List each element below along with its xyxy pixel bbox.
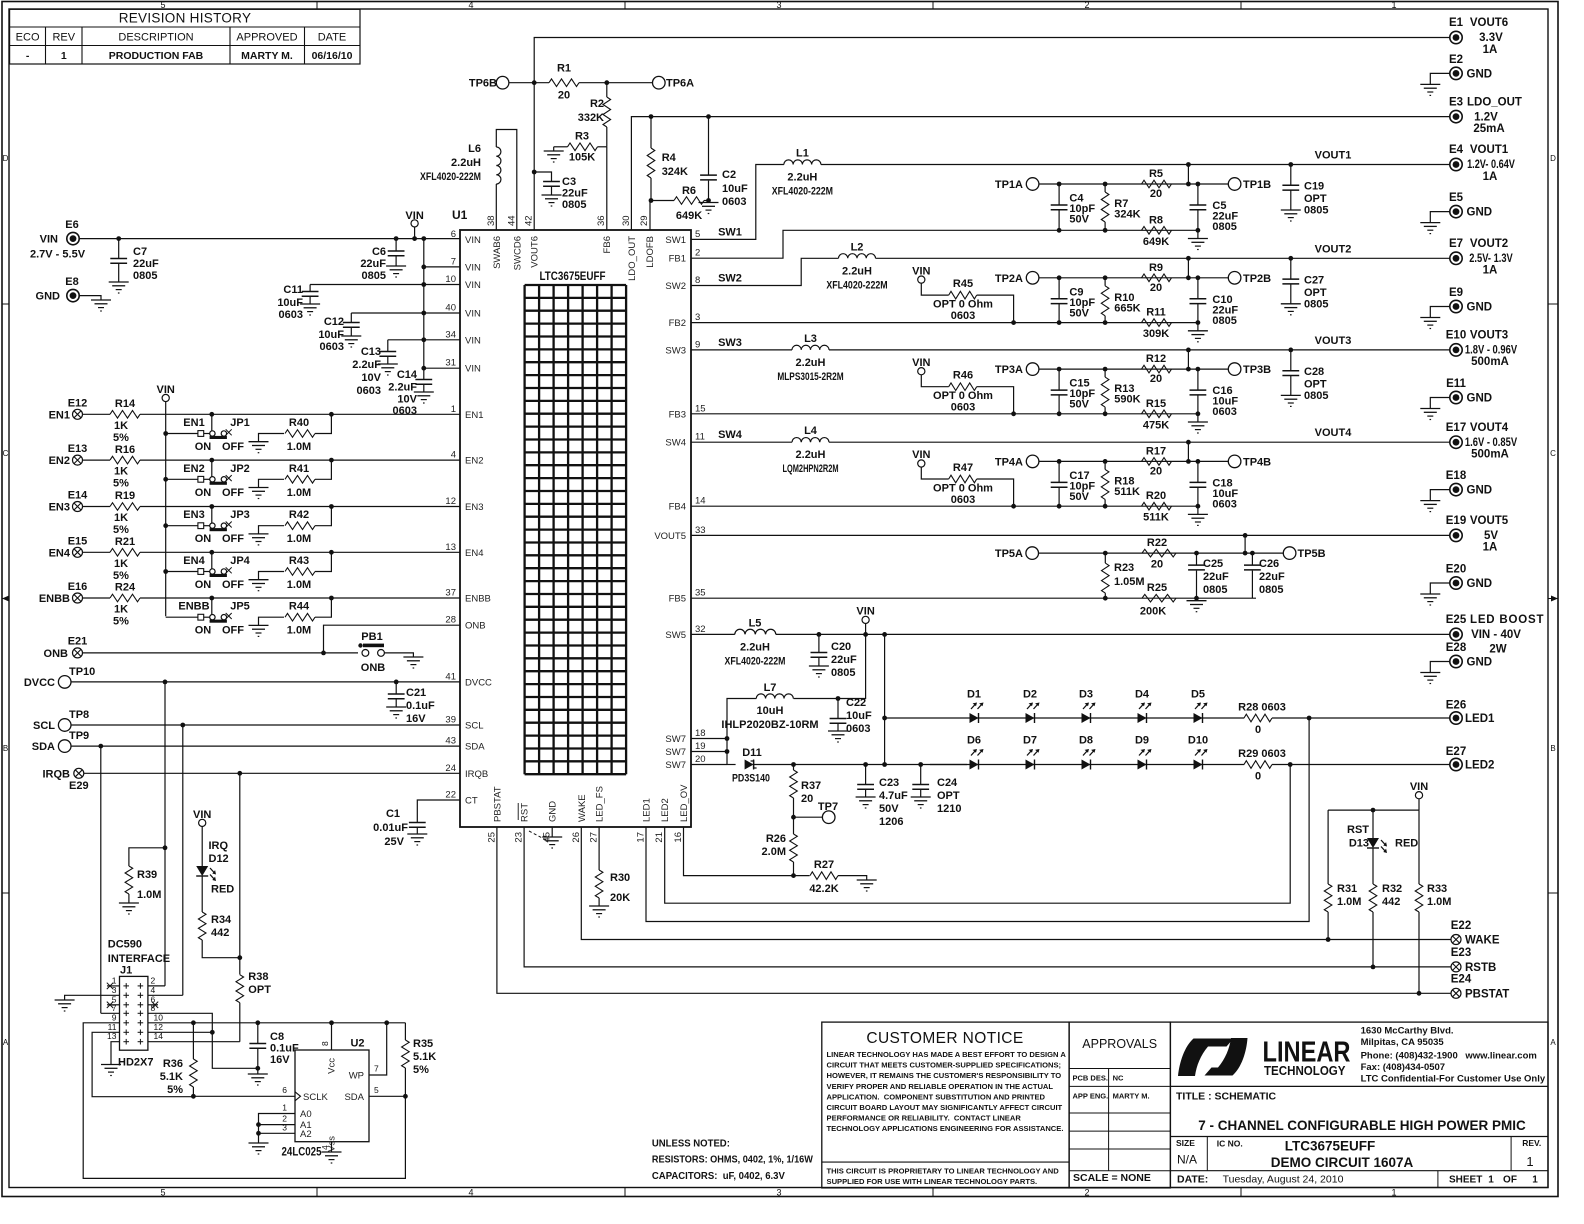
svg-text:1.0M: 1.0M <box>1427 896 1451 908</box>
svg-text:C22: C22 <box>846 697 866 709</box>
terminal E7 <box>1450 252 1462 264</box>
resistor R22 20 <box>1142 549 1176 557</box>
svg-text:9: 9 <box>695 339 700 350</box>
svg-text:SDA: SDA <box>465 742 485 753</box>
wire VOUT4 rail <box>829 441 1450 443</box>
svg-text:0603: 0603 <box>1212 406 1236 418</box>
svg-text:LED_FS: LED_FS <box>595 786 606 822</box>
svg-text:324K: 324K <box>1114 209 1140 221</box>
svg-text:5%: 5% <box>113 432 129 444</box>
node VIN label at U1 <box>411 220 418 227</box>
LED D5 <box>1194 713 1203 723</box>
svg-text:L7: L7 <box>764 682 777 694</box>
svg-text:C24: C24 <box>937 777 958 789</box>
svg-text:22uF: 22uF <box>1203 571 1229 583</box>
svg-text:8: 8 <box>320 1041 330 1046</box>
svg-text:43: 43 <box>445 736 456 747</box>
svg-text:1210: 1210 <box>937 803 961 815</box>
svg-text:5V: 5V <box>1484 530 1498 542</box>
svg-text:EN4: EN4 <box>465 548 483 559</box>
capacitor C4 10pF 50V <box>1057 182 1062 187</box>
wire TP4A row <box>1039 460 1188 462</box>
svg-text:0603: 0603 <box>393 405 417 417</box>
svg-text:RSTB: RSTB <box>1465 962 1496 974</box>
svg-text:0603: 0603 <box>1212 498 1236 510</box>
capacitor C22 10uF 0603 <box>836 696 841 701</box>
svg-text:LED_OV: LED_OV <box>679 784 690 822</box>
svg-text:RST: RST <box>1347 824 1369 836</box>
svg-text:24: 24 <box>445 763 456 774</box>
capacitor C26 22uF 0805 <box>1250 551 1255 556</box>
svg-text:JP2: JP2 <box>230 463 250 475</box>
node VIN boost input <box>862 616 869 623</box>
wire R2/R3 junction down to FB6 pin <box>606 147 608 230</box>
svg-text:PRODUCTION FAB: PRODUCTION FAB <box>109 50 204 62</box>
svg-text:PBSTAT: PBSTAT <box>1465 989 1509 1001</box>
diode D11 PD3S140 <box>727 764 736 766</box>
svg-text:C8: C8 <box>270 1031 284 1043</box>
capacitor C16 10uF 0603 <box>1196 367 1201 372</box>
svg-text:0.01uF: 0.01uF <box>373 822 408 834</box>
svg-text:E11: E11 <box>1446 378 1466 390</box>
svg-text:E12: E12 <box>68 397 88 409</box>
resistor R16 1K 5% <box>83 459 111 461</box>
wire SCL row <box>71 724 460 726</box>
svg-text:R28 0603: R28 0603 <box>1238 702 1286 714</box>
wire VIN node down to L7 row <box>794 634 866 698</box>
svg-text:OPT: OPT <box>1304 287 1327 299</box>
svg-text:R8: R8 <box>1149 214 1163 226</box>
svg-text:R4: R4 <box>662 152 677 164</box>
svg-text:1: 1 <box>1532 1174 1538 1185</box>
svg-text:511K: 511K <box>1114 486 1140 498</box>
svg-text:E8: E8 <box>65 276 78 288</box>
svg-text:2.2uH: 2.2uH <box>796 357 826 369</box>
svg-text:L1: L1 <box>796 148 809 160</box>
svg-text:1630 McCarthy Blvd.: 1630 McCarthy Blvd. <box>1361 1025 1454 1036</box>
node VIN for D13 <box>1415 792 1422 799</box>
svg-text:VOUT4: VOUT4 <box>1315 427 1353 439</box>
svg-text:E13: E13 <box>68 443 88 455</box>
svg-text:ONB: ONB <box>44 648 69 660</box>
svg-text:D1: D1 <box>967 689 981 701</box>
svg-text:EN2: EN2 <box>49 455 70 467</box>
wire RSTB net <box>524 827 1451 967</box>
resistor R24 1K 5% <box>83 597 111 599</box>
inductor L2 2.2uH <box>839 254 876 259</box>
svg-text:R44: R44 <box>289 601 310 613</box>
svg-text:0805: 0805 <box>1304 298 1328 310</box>
svg-text:WAKE: WAKE <box>577 794 588 822</box>
svg-text:Phone: (408)432-1900: Phone: (408)432-1900 <box>1361 1050 1458 1061</box>
resistor R19 1K 5% <box>83 506 111 508</box>
node VIN feed for R46 <box>918 368 925 375</box>
svg-text:ON: ON <box>195 579 212 591</box>
jumper JP1 EN1 ON/OFF <box>163 431 168 436</box>
svg-text:ONB: ONB <box>465 621 486 632</box>
svg-text:34: 34 <box>445 329 456 340</box>
svg-text:R31: R31 <box>1337 883 1357 895</box>
capacitor C15 10pF 50V <box>1057 367 1062 372</box>
wire rail to TP3B row <box>1186 348 1191 353</box>
svg-text:20: 20 <box>695 754 706 765</box>
svg-text:SDA: SDA <box>32 741 55 753</box>
svg-text:PCB DES.: PCB DES. <box>1073 1074 1108 1083</box>
svg-text:25: 25 <box>486 832 497 843</box>
svg-text:1K: 1K <box>114 420 128 432</box>
svg-text:22uF: 22uF <box>562 188 588 200</box>
svg-text:EN1: EN1 <box>49 409 70 421</box>
svg-text:R30: R30 <box>610 872 630 884</box>
resistor R33 1.0M <box>1418 810 1420 884</box>
svg-text:D9: D9 <box>1135 735 1149 747</box>
svg-text:2.2uH: 2.2uH <box>451 157 481 169</box>
svg-text:6: 6 <box>282 1085 287 1095</box>
svg-text:5: 5 <box>160 0 165 10</box>
svg-text:10V: 10V <box>361 372 381 384</box>
terminal E10 <box>1450 344 1462 356</box>
svg-text:1.0M: 1.0M <box>287 487 311 499</box>
svg-text:GND: GND <box>1467 578 1493 590</box>
svg-text:D5: D5 <box>1191 689 1205 701</box>
terminal E22 WAKE <box>1451 935 1461 945</box>
vertical boost output node <box>882 632 887 637</box>
svg-text:E7: E7 <box>1449 238 1463 250</box>
svg-text:OPT: OPT <box>248 984 271 996</box>
test point TP2A <box>1026 272 1039 285</box>
svg-text:VOUT6: VOUT6 <box>1470 17 1508 29</box>
svg-text:TP2B: TP2B <box>1243 273 1271 285</box>
svg-text:TP7: TP7 <box>818 801 838 813</box>
svg-text:JP5: JP5 <box>230 601 250 613</box>
capacitor C13 2.2uF 10V 0603 <box>388 339 424 341</box>
svg-text:CIRCUIT THAT MEETS CUSTOMER-SU: CIRCUIT THAT MEETS CUSTOMER-SUPPLIED SPE… <box>827 1061 1062 1070</box>
svg-text:10uH: 10uH <box>757 705 784 717</box>
svg-text:0805: 0805 <box>1212 315 1236 327</box>
svg-text:1: 1 <box>451 404 456 415</box>
LED D13 RST RED <box>1372 810 1374 838</box>
svg-text:36: 36 <box>596 215 607 226</box>
wire TP5A row <box>1039 552 1284 554</box>
resistor R25 200K <box>1142 594 1176 602</box>
terminal E3 <box>1450 110 1462 122</box>
svg-text:ON: ON <box>195 441 212 453</box>
svg-text:R14: R14 <box>115 398 136 410</box>
svg-text:SW4: SW4 <box>718 429 743 441</box>
terminal E28 GND <box>1450 655 1462 667</box>
LED D12 IRQ RED <box>196 866 208 876</box>
terminal E19 <box>1450 529 1462 541</box>
terminal E8 GND <box>67 289 79 301</box>
svg-text:OFF: OFF <box>222 487 244 499</box>
J1 pin11 wire to SCLK route <box>92 1032 193 1096</box>
svg-text:500mA: 500mA <box>1471 449 1509 461</box>
svg-text:RED: RED <box>1395 838 1418 850</box>
svg-text:D: D <box>3 154 9 163</box>
svg-text:LED2: LED2 <box>1465 760 1494 772</box>
svg-text:C: C <box>1550 449 1556 458</box>
revision history table <box>10 9 360 64</box>
svg-text:2.2uH: 2.2uH <box>842 265 872 277</box>
svg-text:HOWEVER, IT REMAINS THE CUSTOM: HOWEVER, IT REMAINS THE CUSTOMER'S RESPO… <box>827 1071 1062 1080</box>
svg-text:2: 2 <box>695 248 700 259</box>
svg-text:E22: E22 <box>1451 920 1471 932</box>
svg-text:SW2: SW2 <box>665 281 686 292</box>
capacitor C2 10uF 0603 <box>706 114 711 119</box>
svg-text:TP6B: TP6B <box>469 78 497 90</box>
svg-text:1A: 1A <box>1483 44 1498 56</box>
svg-text:OFF: OFF <box>222 441 244 453</box>
wire IRQB vertical <box>237 771 242 776</box>
wire VOUT2 rail <box>876 257 1450 259</box>
svg-text:SW3: SW3 <box>718 337 742 349</box>
svg-text:C6: C6 <box>372 246 386 258</box>
svg-text:1K: 1K <box>114 466 128 478</box>
wire SW4 to L4 <box>691 441 792 443</box>
svg-text:R27: R27 <box>814 859 834 871</box>
U2 pin 5 SDA <box>369 1095 405 1097</box>
svg-text:L4: L4 <box>804 425 818 437</box>
svg-text:VIN: VIN <box>912 265 930 277</box>
capacitor C5 22uF 0805 <box>1196 182 1201 187</box>
svg-text:5%: 5% <box>113 616 129 628</box>
test point TP5A <box>1026 547 1039 560</box>
wire D13/R31/R32/R33 top rail <box>1328 809 1419 811</box>
svg-text:2.2uH: 2.2uH <box>787 172 817 184</box>
svg-text:LED2: LED2 <box>660 798 671 822</box>
J1 pin1 no-connect stub <box>107 985 120 987</box>
test point TP4A <box>1026 455 1039 468</box>
svg-text:5: 5 <box>374 1085 379 1095</box>
svg-text:3.3V: 3.3V <box>1479 32 1503 44</box>
svg-text:5: 5 <box>160 1188 165 1198</box>
wire IRQB row <box>84 772 460 774</box>
title block: logo & title box <box>1170 1022 1548 1187</box>
svg-text:E16: E16 <box>68 581 88 593</box>
svg-text:IC NO.: IC NO. <box>1217 1139 1243 1149</box>
resistor R45 OPT 0 Ohm 0603 <box>949 291 977 299</box>
resistor R10 665K <box>1103 275 1108 280</box>
terminal E6 VIN input <box>67 232 79 244</box>
wire FB3 net <box>691 413 1198 415</box>
svg-text:THIS CIRCUIT IS PROPRIETARY TO: THIS CIRCUIT IS PROPRIETARY TO LINEAR TE… <box>827 1167 1060 1176</box>
svg-text:EN4: EN4 <box>183 555 205 567</box>
svg-text:0805: 0805 <box>133 270 157 282</box>
svg-text:E27: E27 <box>1446 746 1466 758</box>
resistor R32 442 <box>1372 848 1374 884</box>
svg-text:R39: R39 <box>137 869 157 881</box>
terminal E16 ENBB <box>73 593 83 603</box>
svg-text:TECHNOLOGY APPLICATIONS ENGINE: TECHNOLOGY APPLICATIONS ENGINEERING FOR … <box>827 1124 1064 1133</box>
svg-text:10uF: 10uF <box>318 329 344 341</box>
svg-text:E21: E21 <box>68 636 88 648</box>
wire SDA vertical to J1 pin7 <box>98 744 103 749</box>
svg-text:XFL4020-222M: XFL4020-222M <box>772 186 833 198</box>
svg-text:2.2uF: 2.2uF <box>388 382 417 394</box>
title block: approvals box <box>1069 1022 1170 1188</box>
svg-text:2.7V - 5.5V: 2.7V - 5.5V <box>30 249 86 261</box>
svg-text:TP3A: TP3A <box>995 364 1023 376</box>
svg-text:OPT: OPT <box>937 790 960 802</box>
node VIN for D12 <box>199 819 206 826</box>
svg-text:SWAB6: SWAB6 <box>492 236 503 269</box>
resistor R37 20 <box>791 762 796 767</box>
svg-text:0603: 0603 <box>846 723 870 735</box>
inductor L3 2.2uH <box>792 345 829 350</box>
svg-text:E15: E15 <box>68 535 88 547</box>
U2 address pins A0 A1 A2 <box>259 1114 296 1144</box>
LED D3 <box>1082 713 1091 723</box>
svg-text:OPT 0 Ohm: OPT 0 Ohm <box>933 483 993 495</box>
resistor R4 324K <box>649 114 654 119</box>
svg-text:TP4A: TP4A <box>995 456 1023 468</box>
svg-text:20: 20 <box>1150 188 1162 200</box>
svg-text:44: 44 <box>506 215 517 226</box>
terminal E25 LED BOOST <box>1450 628 1462 640</box>
svg-text:D8: D8 <box>1079 735 1093 747</box>
wire FB4 net <box>691 505 1198 507</box>
svg-text:24LC025: 24LC025 <box>282 1147 323 1159</box>
resistor R9 20 <box>1142 274 1172 282</box>
svg-text:WAKE: WAKE <box>1465 935 1500 947</box>
svg-text:C14: C14 <box>397 369 418 381</box>
capacitor C17 10pF 50V <box>1057 459 1062 464</box>
svg-text:R25: R25 <box>1147 582 1167 594</box>
svg-text:TP1A: TP1A <box>995 179 1023 191</box>
wire LED string 1 row <box>885 717 1245 719</box>
test point TP2B <box>1228 272 1241 285</box>
svg-text:C12: C12 <box>324 316 344 328</box>
svg-text:R20: R20 <box>1146 490 1166 502</box>
node VIN feed for R45 <box>918 276 925 283</box>
resistor R39 1.0M <box>163 845 168 850</box>
svg-text:LDO_OUT: LDO_OUT <box>1467 97 1522 109</box>
svg-text:1K: 1K <box>114 558 128 570</box>
svg-text:EN3: EN3 <box>49 502 70 514</box>
wire VIN rail E6 to U1 pin 6 <box>80 238 461 240</box>
svg-text:SW7: SW7 <box>665 760 686 771</box>
svg-text:R3: R3 <box>575 131 589 143</box>
svg-text:C26: C26 <box>1259 558 1279 570</box>
svg-text:10uF: 10uF <box>846 710 872 722</box>
svg-text:200K: 200K <box>1140 606 1166 618</box>
svg-text:0.1uF: 0.1uF <box>406 700 435 712</box>
svg-text:28: 28 <box>445 615 456 626</box>
LED D9 <box>1138 760 1147 770</box>
svg-text:15: 15 <box>695 403 706 414</box>
wire LDO_OUT rail to E3 <box>631 117 1450 230</box>
svg-text:VIN: VIN <box>465 235 481 246</box>
svg-text:VOUT3: VOUT3 <box>1470 330 1508 342</box>
wire SW5 row <box>691 633 735 635</box>
J1 pin13 ground stub <box>111 1042 120 1065</box>
svg-text:C27: C27 <box>1304 274 1324 286</box>
svg-text:D7: D7 <box>1023 735 1037 747</box>
svg-text:0603: 0603 <box>951 494 975 506</box>
wire rail to TP4B row <box>1186 440 1191 445</box>
svg-text:ECO: ECO <box>16 31 40 43</box>
svg-text:1A: 1A <box>1483 542 1498 554</box>
svg-text:E19: E19 <box>1446 515 1466 527</box>
resistor R42 1.0M <box>259 526 285 534</box>
U2 pin 6 SCLK <box>193 1095 295 1097</box>
LED D8 <box>1082 760 1091 770</box>
svg-text:E29: E29 <box>69 780 89 792</box>
svg-text:20: 20 <box>801 793 813 805</box>
capacitor C23 4.7uF 50V 1206 <box>863 762 868 767</box>
test point TP10 DVCC <box>58 676 71 689</box>
wire FB1 net <box>691 230 1198 258</box>
svg-text:1K: 1K <box>114 512 128 524</box>
wire SDA row <box>71 745 460 747</box>
svg-text:10uF: 10uF <box>722 183 748 195</box>
J1 pin6 no-connect stub <box>148 1004 158 1006</box>
svg-text:LTC3675EUFF: LTC3675EUFF <box>540 269 606 283</box>
capacitor C3 22uF 0805 <box>532 170 537 175</box>
svg-text:17: 17 <box>636 832 647 843</box>
svg-text:06/16/10: 06/16/10 <box>312 50 353 62</box>
capacitor C6 22uF 0805 <box>394 236 399 241</box>
svg-text:PERFORMANCE OR RELIABILITY. C: PERFORMANCE OR RELIABILITY. CONTACT LINE… <box>827 1114 1022 1123</box>
svg-text:PD3S140: PD3S140 <box>732 773 770 785</box>
svg-text:GND: GND <box>36 291 61 303</box>
svg-text:0: 0 <box>1255 724 1261 736</box>
resistor R40 1.0M <box>259 434 285 442</box>
svg-text:16V: 16V <box>406 713 426 725</box>
svg-text:0805: 0805 <box>1203 584 1227 596</box>
svg-text:ON: ON <box>195 533 212 545</box>
svg-text:R41: R41 <box>289 463 309 475</box>
svg-text:Vcc: Vcc <box>327 1058 338 1074</box>
svg-text:R34: R34 <box>211 914 232 926</box>
wire EN1 row to U1 <box>140 413 460 415</box>
svg-text:23: 23 <box>514 832 525 843</box>
wire TP3A row <box>1039 368 1188 370</box>
resistor R2 332K <box>606 83 608 97</box>
svg-text:25mA: 25mA <box>1473 123 1504 135</box>
svg-text:R24: R24 <box>115 582 136 594</box>
svg-text:ENBB: ENBB <box>178 601 209 613</box>
svg-text:R42: R42 <box>289 509 309 521</box>
svg-text:PB1: PB1 <box>361 631 382 643</box>
svg-text:R19: R19 <box>115 490 135 502</box>
svg-text:500mA: 500mA <box>1471 356 1509 368</box>
svg-text:22: 22 <box>445 790 456 801</box>
svg-text:C: C <box>3 449 9 458</box>
svg-text:JP3: JP3 <box>230 509 250 521</box>
svg-text:C28: C28 <box>1304 366 1324 378</box>
svg-text:D2: D2 <box>1023 689 1037 701</box>
capacitor C24 OPT 1210 <box>918 762 923 767</box>
svg-text:JP1: JP1 <box>230 417 250 429</box>
svg-text:E20: E20 <box>1446 564 1466 576</box>
svg-text:ON: ON <box>195 487 212 499</box>
svg-text:CUSTOMER NOTICE: CUSTOMER NOTICE <box>866 1030 1023 1047</box>
wire LED string 2 row <box>930 764 1244 766</box>
svg-text:38: 38 <box>486 215 497 226</box>
svg-text:LQM2HPN2R2M: LQM2HPN2R2M <box>782 463 838 475</box>
svg-text:VIN: VIN <box>193 809 211 821</box>
wire ONB to U1 pin 28 <box>324 625 461 653</box>
svg-text:IRQB: IRQB <box>43 768 71 780</box>
svg-text:5%: 5% <box>413 1064 429 1076</box>
svg-text:41: 41 <box>445 671 456 682</box>
svg-text:1.0M: 1.0M <box>287 441 311 453</box>
svg-text:2.2uH: 2.2uH <box>796 449 826 461</box>
resistor R36 5.1K 5% <box>191 1020 196 1025</box>
resistor R35 5.1K 5% <box>404 1023 406 1040</box>
capacitor C27 OPT 0805 <box>1288 256 1293 261</box>
